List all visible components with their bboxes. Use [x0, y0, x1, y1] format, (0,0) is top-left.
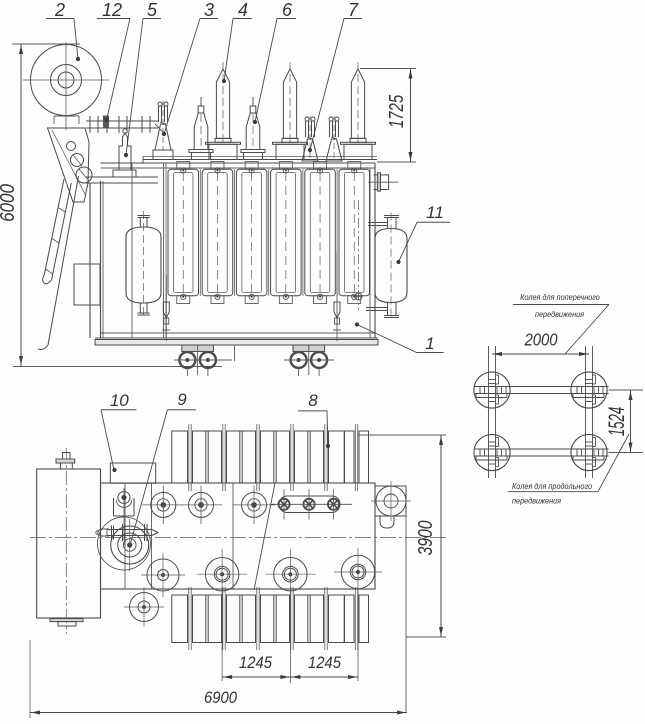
- svg-text:Колея для продольного: Колея для продольного: [512, 481, 593, 491]
- svg-text:6900: 6900: [204, 689, 237, 707]
- svg-text:Колея для поперечного: Колея для поперечного: [520, 292, 600, 302]
- svg-text:7: 7: [348, 0, 359, 20]
- svg-text:12: 12: [102, 0, 122, 20]
- svg-text:1524: 1524: [605, 407, 629, 436]
- svg-text:5: 5: [147, 0, 158, 20]
- svg-text:3900: 3900: [414, 520, 436, 555]
- svg-text:2000: 2000: [524, 330, 558, 349]
- svg-text:6: 6: [282, 0, 293, 20]
- svg-text:4: 4: [238, 0, 248, 20]
- svg-text:передвижения: передвижения: [535, 309, 585, 319]
- svg-text:3: 3: [204, 0, 214, 20]
- svg-text:11: 11: [426, 203, 444, 222]
- svg-text:8: 8: [308, 391, 318, 410]
- svg-text:1725: 1725: [385, 95, 408, 128]
- svg-text:1245: 1245: [308, 654, 341, 672]
- svg-text:2: 2: [54, 0, 65, 20]
- svg-text:1: 1: [425, 334, 434, 353]
- svg-text:9: 9: [177, 390, 187, 409]
- svg-text:10: 10: [110, 391, 129, 410]
- svg-text:6000: 6000: [0, 183, 18, 221]
- svg-text:передвижения: передвижения: [512, 496, 562, 506]
- svg-text:1245: 1245: [239, 654, 272, 672]
